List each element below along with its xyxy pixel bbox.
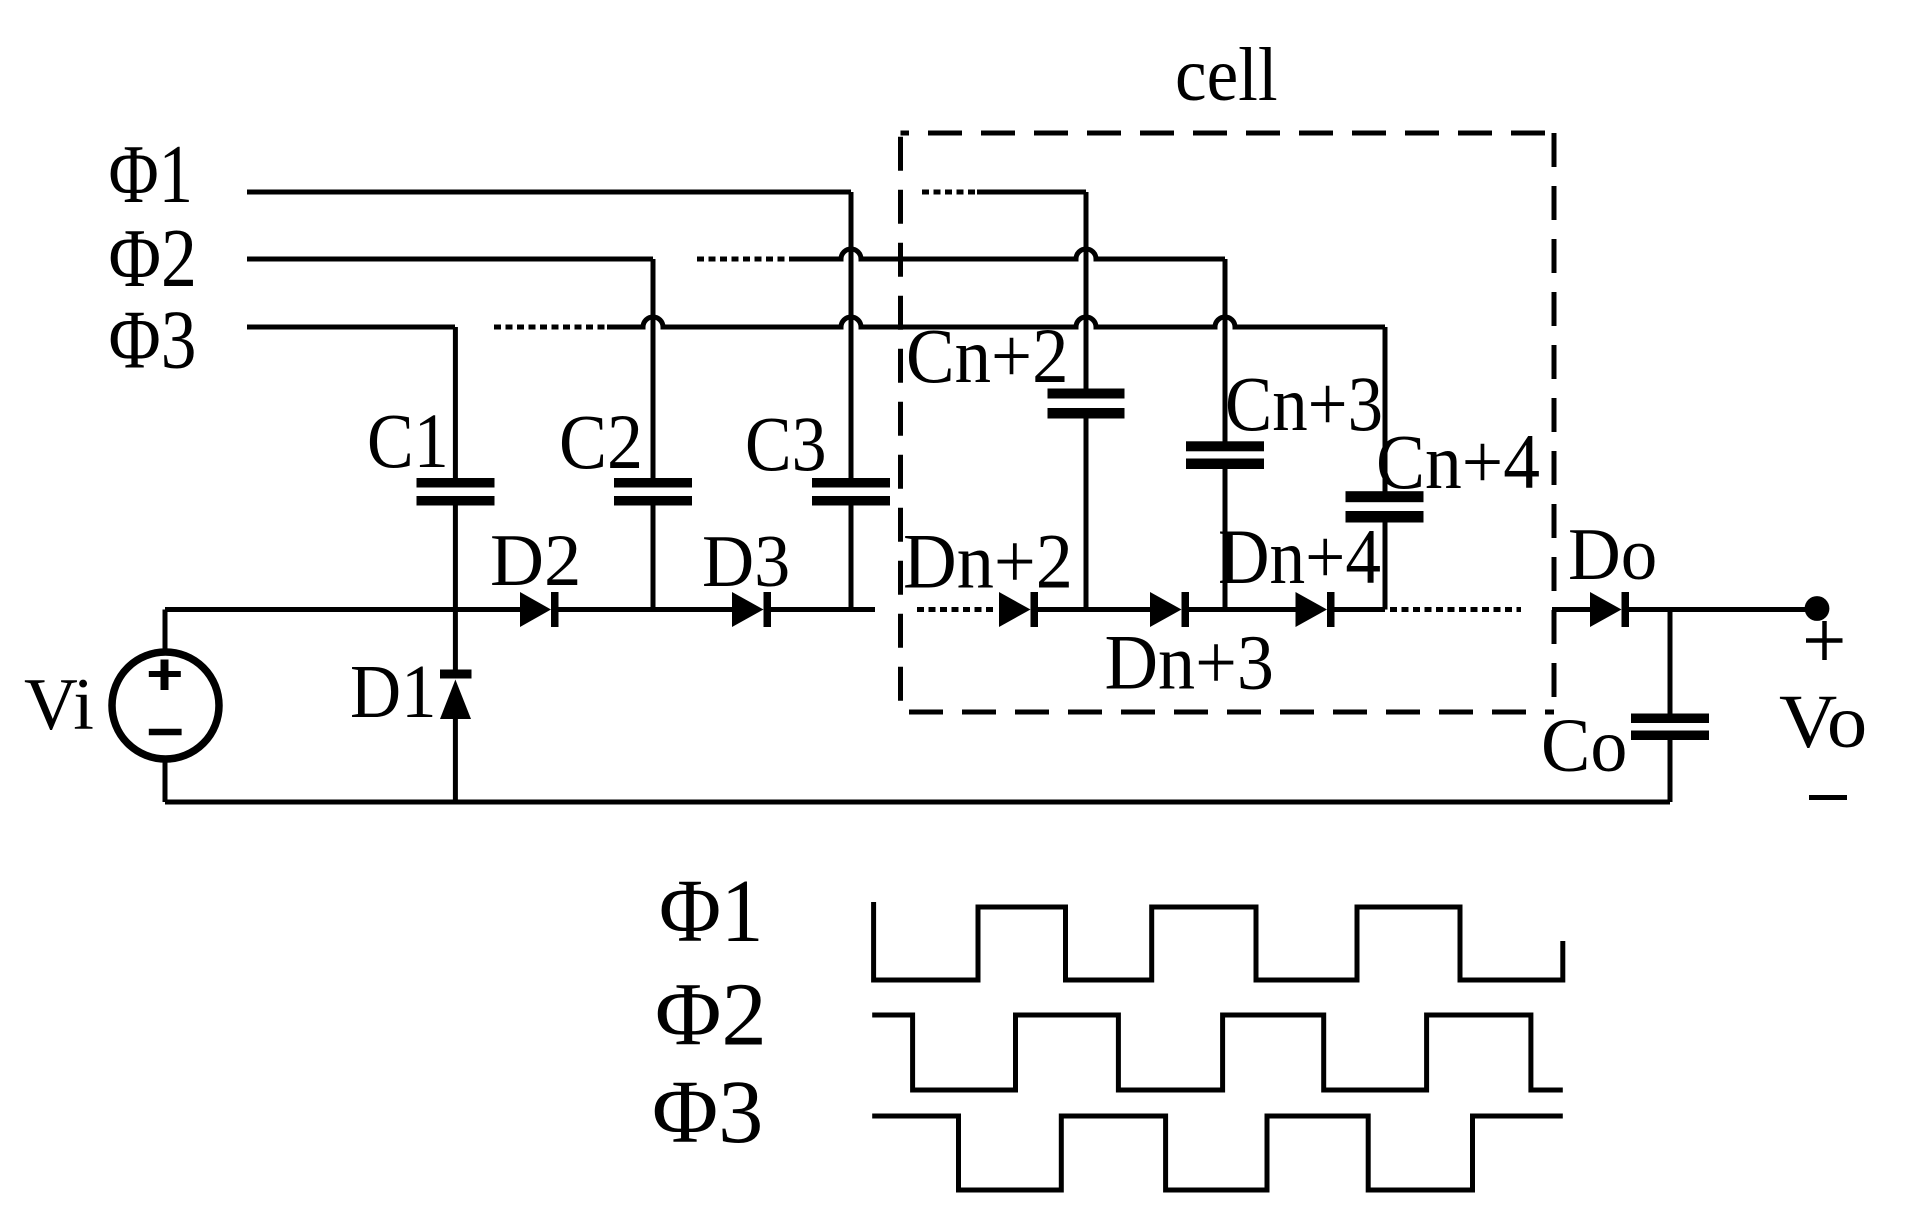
svg-text:cell: cell [1175,33,1278,117]
svg-text:Cn+2: Cn+2 [906,312,1069,399]
svg-text:Dn+2: Dn+2 [903,518,1073,605]
waveform PHI1 [874,902,1563,980]
capacitor Co vertical [1668,610,1673,803]
wire C1 vertical from PHI3 to chain [453,327,458,610]
svg-text:Dn+4: Dn+4 [1218,513,1381,600]
node PHI2 clock rail [247,257,653,262]
diode Dn+4 [1296,592,1328,627]
source Vi vertical top [163,610,168,654]
waveform PHI2 [872,1015,1563,1090]
capacitor C1 [417,478,495,488]
svg-text:Φ3: Φ3 [109,294,197,387]
source Vi plus [149,671,181,677]
svg-text:Dn+3: Dn+3 [1105,619,1275,706]
wire bottom rail [165,800,1670,805]
capacitor Co [1631,714,1709,724]
svg-text:Φ1: Φ1 [109,128,194,221]
source Vi minus [149,729,182,736]
svg-text:C2: C2 [559,398,643,485]
svg-text:D3: D3 [702,521,790,603]
source Vi vertical bottom [163,758,168,802]
waveform PHI3 [872,1116,1563,1190]
svg-text:Φ1: Φ1 [659,862,764,961]
capacitor Cn+3 [1186,441,1264,451]
wire chain dotted right of Cn+4 [1390,607,1521,612]
wire output after Do to node [1629,607,1812,612]
svg-text:D1: D1 [350,650,437,734]
capacitor C3 [812,478,890,488]
cell dashed box [901,131,1555,136]
wire chain Dn+2 to Dn+3 [1038,607,1150,612]
svg-text:Cn+4: Cn+4 [1376,418,1540,505]
diode D3 [732,592,764,627]
wire chain dotted left of Dn+2 [917,607,997,612]
svg-text:Φ3: Φ3 [652,1063,763,1162]
wire PHI3 segment with hops over verticals at 653, 851, 1086, 1225 [607,317,1385,327]
wire C3 vertical from PHI1 to chain [849,192,854,610]
svg-text:Φ2: Φ2 [109,212,197,305]
capacitor C2 [614,478,692,488]
wire chain Dn+3 to Dn+4 [1189,607,1296,612]
capacitor Cn+2 [1048,389,1125,399]
diode D2 [520,592,551,627]
diode Dn+3 [1150,592,1182,627]
wire PHI1 cell segment [977,190,1086,195]
wire Cn+4 vertical from PHI3 to chain [1383,327,1388,610]
wire Cn+2 vertical from PHI1 to chain [1084,192,1089,610]
wire PHI3 dotted continuation [494,325,607,330]
wire main diode chain segments [165,607,875,612]
diode D1 vertical below chain [453,610,458,670]
wire PHI1 dotted continuation in cell [922,190,977,195]
diode Dn+2 [999,592,1031,627]
wire PHI2 segment with hops over verticals at 851 and 1086 [795,249,1225,259]
wire Cn+3 vertical from PHI2 to chain [1223,259,1228,610]
svg-text:C1: C1 [367,397,449,484]
label Vo minus [1809,795,1847,800]
wire PHI2 dotted continuation [697,257,795,262]
wire chain before Do [1552,607,1590,612]
svg-text:Co: Co [1541,704,1627,788]
svg-text:C3: C3 [745,400,827,487]
svg-text:Cn+3: Cn+3 [1225,360,1383,447]
diode Do [1590,592,1622,627]
source Vi circle [112,652,219,759]
label Vo plus [1806,638,1843,643]
svg-text:Do: Do [1568,514,1657,596]
svg-text:Vo: Vo [1779,680,1867,764]
capacitor Cn+4 [1346,491,1424,502]
svg-text:Vi: Vi [24,664,94,746]
svg-text:D2: D2 [490,520,581,602]
node PHI1 clock rail [247,190,851,195]
node PHI3 clock rail [247,325,455,330]
node output junction dot [1805,596,1830,621]
svg-text:Φ2: Φ2 [655,965,767,1064]
wire C2 vertical from PHI2 to chain [651,259,656,610]
wire chain Dn+4 to Cn+4 node [1335,607,1386,612]
